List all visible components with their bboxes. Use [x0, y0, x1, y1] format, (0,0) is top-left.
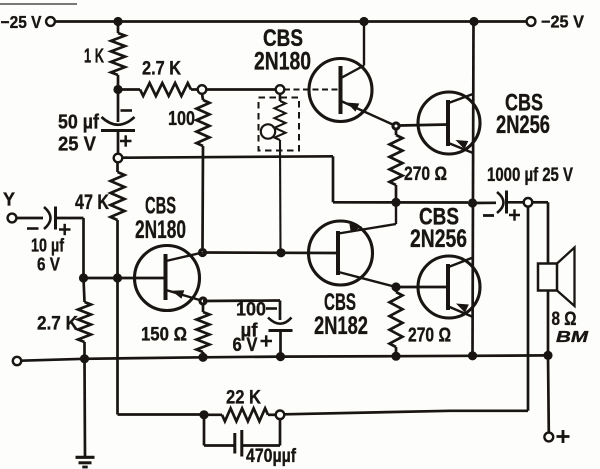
thermistor circle — [261, 124, 275, 138]
wire 470pf right leg — [243, 444, 280, 447]
node ground / C100uf — [276, 352, 285, 361]
speaker LS1 cone — [557, 248, 575, 307]
svg-text:Y: Y — [3, 190, 15, 210]
transistor Q2 circle — [418, 92, 480, 154]
wire R 2.7K to node — [191, 88, 202, 91]
svg-text:150 Ω: 150 Ω — [141, 325, 187, 346]
capacitor 50uf 25V curved plate — [102, 117, 135, 125]
transistor Q2 base bar — [446, 100, 450, 146]
ground symbol — [76, 456, 95, 459]
wire bottom ground bus — [21, 355, 548, 360]
svg-text:100: 100 — [236, 300, 266, 321]
polarity + output terminal — [557, 435, 570, 438]
polarity + of C 10uf — [59, 228, 71, 231]
svg-text:470µµf: 470µµf — [246, 445, 296, 467]
wire 470pf left leg — [203, 415, 206, 446]
capacitor 100uf curved plate — [268, 318, 292, 324]
svg-text:2N180: 2N180 — [135, 216, 186, 244]
wire node to R 2.7K lower — [84, 278, 85, 302]
node Q3 emitter — [198, 296, 207, 305]
wire 50uf node to mid corner — [122, 156, 333, 157]
node Q3 collector — [198, 248, 207, 257]
transistor Q2 emitter arrow (PNP) — [456, 140, 469, 149]
resistor 22K — [222, 408, 268, 421]
wire C 100uf to ground bus — [279, 331, 282, 357]
svg-text:2.7 K: 2.7 K — [37, 314, 78, 335]
node 22K left — [199, 410, 208, 419]
polarity + of C 50uf — [120, 140, 132, 143]
wire node to R 22K — [204, 413, 222, 416]
capacitor 10uf 6V curved plate — [44, 207, 51, 229]
transistor Q1 collector lead — [341, 66, 364, 79]
transistor Q4 emitter lead (NPN up) — [339, 224, 397, 234]
svg-text:22 K: 22 K — [226, 387, 261, 409]
transistor Q1 emitter arrow (PNP) — [347, 103, 360, 112]
transistor Q3 base bar — [164, 254, 168, 300]
transistor Q1 circle — [309, 59, 372, 122]
node input / 2.7K lower — [79, 273, 88, 282]
wire thermistor to Q4 base node — [279, 140, 282, 253]
transistor Q4 emitter arrow (NPN) — [349, 224, 362, 233]
capacitor 1000uf straight plate — [505, 191, 508, 214]
thermistor resistor element — [275, 101, 286, 140]
polarity - of C 1000uf — [483, 214, 494, 217]
wire node to Q4 base — [281, 251, 338, 254]
node top rail / Q2 collector — [469, 17, 478, 26]
wire mid to output node run — [333, 201, 468, 204]
transistor Q2 collector lead — [449, 94, 474, 103]
transistor Q3 emitter arrow (PNP) — [172, 290, 185, 299]
svg-text:1000 µf 25 V: 1000 µf 25 V — [487, 165, 573, 186]
node output / 1000uf — [468, 198, 477, 207]
svg-text:100: 100 — [168, 108, 195, 130]
svg-text:47 K: 47 K — [75, 191, 109, 214]
wire R 2.7K lower to ground wire — [83, 342, 86, 359]
terminal ground left — [13, 357, 21, 365]
node 2.7K / 100ohm — [198, 85, 207, 94]
svg-text:−25 V: −25 V — [1, 12, 42, 32]
capacitor 470uuf right plate — [240, 430, 243, 457]
capacitor 1000uf curved plate — [497, 192, 504, 213]
wire Y to C 10uf — [17, 217, 44, 220]
svg-text:1 K: 1 K — [84, 46, 104, 68]
transistor Q4 base bar — [336, 231, 340, 275]
wire feedback column — [116, 282, 119, 415]
wire corner down to base node — [82, 218, 85, 278]
svg-text:−25 V: −25 V — [541, 12, 584, 32]
resistor 2.7K lower — [78, 302, 91, 342]
wire node to R270 top — [395, 130, 398, 135]
transistor Q3 emitter lead — [166, 290, 203, 301]
resistor 1K — [111, 33, 125, 75]
polarity + of C 100uf — [261, 340, 273, 343]
wire R 22K to node — [268, 413, 276, 416]
wire ground drop — [83, 359, 86, 457]
wire R 1K to node — [117, 75, 120, 90]
svg-text:2N180: 2N180 — [254, 48, 311, 76]
node top rail / R1 — [113, 17, 122, 26]
svg-text:2N182: 2N182 — [314, 312, 368, 340]
capacitor 50uf 25V straight plate — [101, 129, 135, 132]
wire R 47K to base node — [116, 220, 119, 278]
wire output column down — [527, 207, 530, 411]
wire R270 top to node — [395, 185, 398, 202]
node ground / speaker — [543, 351, 552, 360]
wire base node to Q3 base — [118, 277, 166, 280]
svg-text:2.7 K: 2.7 K — [142, 59, 181, 80]
wire output node to C 1000uf — [473, 201, 497, 204]
resistor 2.7K top — [140, 83, 191, 96]
wire speaker to ground bus — [547, 291, 550, 356]
wire -25V rail to R 1K — [117, 22, 120, 34]
resistor 270 bottom — [390, 292, 403, 347]
capacitor 100uf straight plate — [269, 329, 293, 332]
terminal -25V left — [46, 17, 55, 26]
node 270 top / output wire — [391, 198, 400, 207]
wire mid corner down — [332, 156, 335, 202]
node Q3 base / 47K / feedback — [113, 273, 122, 282]
svg-text:2N256: 2N256 — [410, 225, 467, 253]
svg-text:6 V: 6 V — [37, 254, 61, 275]
transistor Q5 emitter lead — [449, 307, 474, 318]
wire C 1000uf to speaker node — [508, 201, 525, 204]
terminal Y input — [8, 214, 17, 223]
svg-text:270 Ω: 270 Ω — [404, 164, 447, 185]
svg-text:25 V: 25 V — [58, 134, 97, 156]
top edge scan artifact — [0, 3, 77, 5]
transistor Q1 base bar — [339, 66, 343, 114]
transistor Q5 base bar — [446, 264, 450, 310]
wire Q3 collector node to Q4 base node — [203, 251, 282, 254]
wire Q2 base — [400, 125, 448, 126]
thermistor dashed box — [259, 98, 300, 151]
wire Q5 base — [400, 286, 448, 289]
svg-text:6 V: 6 V — [233, 335, 258, 356]
node ground / R270 — [391, 352, 400, 361]
wire base node segment — [84, 277, 118, 280]
wire right vertical rail — [473, 22, 474, 356]
wire node to R270 bottom — [395, 287, 398, 292]
node speaker feed — [524, 198, 533, 207]
wire speaker node to + terminal — [547, 355, 550, 432]
resistor 270 top — [390, 135, 403, 185]
transistor Q3 circle — [135, 246, 200, 311]
transistor Q2 emitter lead — [449, 143, 474, 153]
transistor Q1 emitter lead — [341, 101, 396, 126]
capacitor 470uuf left plate — [233, 433, 236, 454]
polarity + of C 1000uf — [509, 214, 520, 217]
wire node to C 50uf — [117, 90, 120, 123]
wire Q3 emitter node to R150 — [202, 305, 205, 312]
polarity - of C 100uf — [266, 307, 277, 310]
wire feedback to output corner — [284, 411, 528, 415]
svg-text:2N256: 2N256 — [496, 111, 550, 139]
wire R 100 down to Q3 collector node — [201, 146, 204, 248]
wire node to R 2.7K — [118, 88, 140, 91]
transistor Q4 circle — [309, 221, 373, 285]
node Q4 collector / Q5 base / R270 — [391, 282, 400, 291]
wire Q3 emitter to C100uf corner — [203, 299, 280, 302]
node Q4 base wire — [276, 248, 285, 257]
wire node to thermistor resistor — [279, 94, 282, 102]
node ground / right rail — [468, 351, 477, 360]
transistor Q5 collector lead — [449, 258, 474, 268]
node Q1 emitter / Q2 base — [391, 121, 400, 130]
polarity - of C 50uf — [121, 109, 133, 112]
node ground / R150 — [198, 353, 207, 362]
wire top rail — [55, 20, 527, 23]
terminal -25V right — [527, 17, 536, 26]
resistor 150 — [197, 312, 210, 352]
wire node to Q1 base (faded) — [284, 88, 340, 90]
node thermistor top — [276, 85, 285, 94]
node 1K / 2.7K / 50uf — [113, 85, 122, 94]
wire C 10uf to corner — [57, 217, 84, 220]
terminal output + — [544, 433, 553, 442]
wire node to R 100 — [202, 94, 203, 101]
transistor Q5 emitter arrow (PNP) — [456, 304, 469, 313]
capacitor 10uf 6V straight plate — [54, 207, 57, 230]
wire node to R 47K — [116, 162, 119, 172]
svg-text:270 Ω: 270 Ω — [408, 325, 451, 347]
resistor 47K — [111, 172, 125, 220]
wire R270 bottom to ground bus — [395, 347, 398, 356]
node top rail / Q1 collector — [359, 17, 368, 26]
wire R150 to ground bus — [202, 352, 205, 357]
svg-text:10 µf: 10 µf — [31, 235, 65, 256]
polarity - of C 10uf — [27, 227, 39, 230]
transistor Q5 circle — [418, 256, 480, 318]
wire speaker feed top — [532, 201, 548, 204]
svg-text:8 Ω: 8 Ω — [552, 309, 577, 330]
wire C 50uf to node — [117, 130, 120, 154]
node 22K right — [276, 411, 285, 420]
node 50uf / 47K / mid wire — [114, 154, 123, 163]
speaker LS1 frame — [538, 264, 557, 291]
svg-text:50 µf: 50 µf — [58, 112, 99, 134]
transistor Q3 collector lead — [166, 253, 203, 262]
wire node to thermistor node — [206, 88, 280, 91]
node ground wire / 2.7K — [80, 354, 89, 363]
svg-text:BM: BM — [556, 329, 589, 346]
wire feedback bottom run — [118, 413, 205, 416]
resistor 100 — [197, 100, 210, 146]
wire corner down to C 100uf — [279, 301, 282, 321]
transistor Q4 collector lead — [339, 272, 397, 287]
